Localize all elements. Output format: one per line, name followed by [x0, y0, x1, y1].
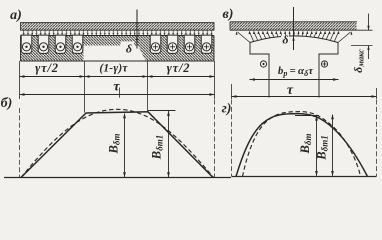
delta_max dimension at pole tip (panel v): [351, 45, 373, 47]
pole width dimension arrows (panel v): [250, 79, 339, 81]
svg-text:в): в): [223, 7, 234, 22]
svg-text:γτ/2: γτ/2: [35, 61, 59, 75]
baseline (panel g): [232, 176, 377, 178]
pole shoe face arc (panel v): [250, 36, 338, 43]
amplitude arrow B_dm (panel g): [316, 116, 318, 176]
svg-text:а): а): [10, 8, 22, 23]
side extension lines (panel g): [231, 100, 233, 177]
rotor bottom edge (panel a): [21, 60, 215, 62]
svg-text:(1-γ)τ: (1-γ)τ: [99, 63, 128, 75]
svg-text:г): г): [222, 102, 232, 117]
fundamental sine dashed (panel g): [243, 112, 361, 177]
tau dimension (panel v): [231, 84, 233, 99]
side extension lines (panel b): [19, 108, 21, 177]
stator core strip (panel a): [21, 23, 215, 31]
air gap dimension delta (panel v): [281, 36, 289, 45]
amplitude arrow B_dm1 (panel g): [332, 115, 334, 176]
dimension row: gamma-tau/2, (1-gamma)tau, gamma-tau/2: [20, 76, 215, 78]
stator core strip (panel v): [230, 22, 357, 30]
svg-text:bp = αδτ: bp = αδτ: [278, 65, 314, 78]
fundamental sine curve B1 dashed (panel b): [21, 109, 214, 177]
svg-text:Bδm1: Bδm1: [150, 135, 165, 160]
trapezoidal field curve B (panel b): [21, 112, 213, 178]
air-gap field arrows fan (panel v): [249, 32, 253, 42]
svg-text:τ: τ: [287, 83, 294, 98]
slot & conductor 5: [150, 35, 161, 53]
svg-text:δ: δ: [282, 33, 288, 47]
slot & conductor 7: [184, 35, 195, 53]
svg-text:Bδm: Bδm: [298, 134, 313, 155]
slot & conductor 1: [21, 35, 32, 53]
svg-text:τ: τ: [113, 80, 120, 95]
slot & conductor 2: [38, 35, 49, 53]
pole body sides (panel v): [268, 54, 270, 98]
amplitude arrow B_dm1 with tick (panel b): [148, 110, 176, 112]
salient-pole field curve B (panel g): [236, 114, 368, 177]
slot & conductor 3: [55, 35, 66, 53]
svg-text:Bδm: Bδm: [107, 134, 122, 155]
amplitude arrow B_dm (panel b): [124, 114, 126, 178]
field winding conductor in (panel v): [321, 61, 327, 67]
slot & conductor 8: [201, 35, 212, 53]
air gap dimension delta (panel a): [121, 42, 135, 55]
rotor surface line (panel a): [21, 35, 215, 37]
svg-text:δ: δ: [126, 42, 132, 56]
svg-text:γτ/2: γτ/2: [167, 61, 191, 75]
extension lines (panel a dims): [19, 61, 21, 99]
slot & conductor 4: [72, 35, 83, 53]
baseline (panel b): [4, 177, 231, 179]
svg-text:δмакс: δмакс: [351, 49, 366, 73]
pole shoe tips and lips (panel v): [249, 43, 251, 55]
rotor iron with slots (panel a): [21, 36, 215, 62]
field winding conductor out (panel v): [260, 61, 266, 67]
air-gap flux arrows (panel a): [22, 30, 214, 35]
dimension row: tau (panel a): [20, 94, 215, 96]
slot & conductor 6: [167, 35, 178, 53]
svg-text:б): б): [1, 96, 13, 111]
amplitude tick (panel g): [295, 115, 319, 117]
fringe flux arrows at pole tips (panel v): [238, 32, 251, 43]
